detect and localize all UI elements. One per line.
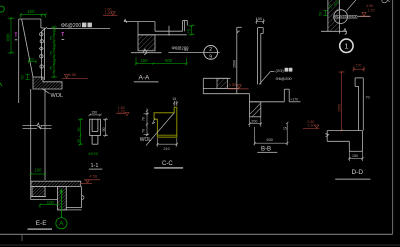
svg-text:70: 70 (141, 117, 145, 121)
leader line to rebar label (47, 28, 110, 30)
green bracket dim 50 (25, 74, 29, 79)
green small dim 50 (29, 60, 37, 64)
hatched L bracket (33, 77, 62, 89)
svg-text:75: 75 (53, 59, 57, 63)
right white dim (103, 118, 108, 137)
svg-text:600: 600 (6, 33, 11, 41)
green glyph left edge (0, 6, 4, 12)
left green dim (78, 118, 83, 145)
svg-text:E-E: E-E (36, 220, 48, 227)
svg-text:4.50: 4.50 (89, 174, 98, 179)
svg-text:4.50: 4.50 (229, 82, 238, 87)
A-A hatched footing (138, 35, 155, 51)
channel top dim 150 (255, 19, 264, 24)
svg-text:1500: 1500 (337, 104, 341, 112)
svg-text:75: 75 (53, 29, 57, 33)
tall vertical line (236, 27, 238, 93)
svg-text:150: 150 (91, 110, 97, 114)
svg-text:100: 100 (47, 200, 55, 205)
border tick (21, 234, 23, 241)
ledge hatch box (217, 78, 228, 88)
ground line with break (321, 29, 347, 35)
svg-text:Φ6@200: Φ6@200 (276, 76, 293, 81)
svg-text:D-D: D-D (352, 169, 364, 176)
wall outline top (19, 19, 47, 103)
svg-text:500: 500 (165, 58, 173, 63)
svg-text:75: 75 (49, 66, 53, 70)
svg-text:50: 50 (20, 75, 24, 79)
green right dim chain 75s (51, 26, 57, 78)
left hatched block (32, 186, 45, 196)
svg-text:35: 35 (77, 139, 81, 143)
white arrow tick (152, 118, 155, 124)
corner arc top-right (382, 0, 388, 3)
break symbol (23, 123, 52, 129)
svg-text:150: 150 (141, 58, 149, 63)
svg-text:Φ6@200: Φ6@200 (61, 23, 81, 29)
svg-text:15: 15 (283, 127, 287, 131)
svg-text:1-1: 1-1 (91, 163, 99, 169)
center hatched column (58, 186, 67, 210)
svg-text:C-C: C-C (162, 161, 173, 167)
leader to labels (259, 72, 274, 85)
svg-text:4.50: 4.50 (366, 4, 373, 8)
beam dim 200 (248, 117, 262, 127)
green dim 100 E-E (39, 203, 59, 208)
svg-text:B-B: B-B (261, 146, 271, 152)
svg-text:4Φ25: 4Φ25 (88, 151, 99, 156)
green dim 50 left of wall (323, 10, 327, 15)
svg-text:90: 90 (102, 128, 106, 132)
svg-text:1500: 1500 (233, 60, 237, 68)
detail circle on wall (334, 10, 348, 24)
hatched top slab strip (31, 181, 81, 186)
beam hatch box (250, 102, 261, 117)
svg-text:75: 75 (49, 51, 53, 55)
ground line with break (131, 49, 162, 55)
D-D profile (325, 131, 362, 152)
svg-text:210: 210 (163, 147, 169, 151)
top dim 15 (173, 101, 178, 106)
base line of center column (58, 209, 82, 211)
svg-text:2: 2 (209, 47, 212, 53)
ledge top (203, 78, 238, 93)
svg-text:15: 15 (172, 97, 176, 101)
green dim 100 column (30, 173, 47, 175)
sheet border vertical line (392, 0, 394, 234)
svg-text:150: 150 (256, 17, 262, 21)
green bottom dim A-A (135, 58, 188, 66)
svg-text:170: 170 (355, 63, 361, 67)
svg-text:1.20: 1.20 (307, 124, 314, 128)
svg-text:75: 75 (49, 36, 53, 40)
diagonal leader (146, 113, 174, 146)
green tick top (334, 1, 339, 6)
wall lines (327, 0, 329, 31)
top hook (237, 26, 242, 28)
svg-text:50: 50 (329, 4, 333, 8)
svg-text:70: 70 (141, 129, 145, 133)
svg-text:64: 64 (184, 48, 188, 52)
red vertical dim 1500 (339, 71, 345, 132)
svg-text:75: 75 (53, 44, 57, 48)
svg-text:150: 150 (27, 9, 35, 14)
svg-text:50: 50 (30, 58, 34, 62)
svg-text:70: 70 (366, 95, 370, 99)
small arrow on line (237, 30, 240, 33)
svg-text:50: 50 (319, 12, 323, 16)
svg-text:WOL: WOL (51, 93, 64, 99)
green tick far left (0, 83, 2, 86)
svg-text:1: 1 (344, 42, 348, 51)
svg-text:A: A (59, 221, 64, 228)
green left vertical dim 600 (8, 17, 15, 54)
wall hatch (328, 0, 340, 31)
white line to level (358, 16, 371, 18)
green top dim line 150 (20, 13, 47, 17)
red dim 170 (353, 67, 366, 72)
bracket outer (90, 119, 101, 144)
yellow flashing profile (154, 107, 177, 137)
svg-text:9: 9 (209, 55, 212, 61)
magenta mark left (15, 33, 18, 37)
svg-text:75: 75 (186, 28, 191, 33)
rebar circles (39, 33, 43, 69)
top dim 150 (89, 114, 102, 116)
bottom dim 210 (156, 138, 178, 147)
svg-text:630: 630 (267, 138, 273, 142)
C-C left dim chain (144, 109, 150, 137)
faint bottom line (0, 244, 400, 246)
big detail circle 1 (340, 39, 353, 52)
small bracket mark right (82, 196, 84, 200)
channel shape (355, 78, 363, 130)
column left line (30, 89, 32, 200)
svg-text:1.20: 1.20 (368, 9, 375, 13)
svg-text:100: 100 (35, 168, 43, 173)
svg-text:200: 200 (251, 119, 257, 123)
right wall line (81, 186, 83, 207)
green leader arrow and circle A (56, 192, 67, 229)
D-D dim 150 (348, 151, 364, 161)
svg-text:(2/3): (2/3) (276, 68, 285, 73)
svg-text:A-A: A-A (139, 74, 151, 81)
green right dim A-A (189, 25, 195, 36)
diagonal leader from circle (347, 0, 356, 11)
magenta mark right (61, 32, 64, 36)
A-A parapet profile (124, 19, 187, 35)
svg-text:4.50: 4.50 (69, 72, 78, 77)
left block base lines (31, 197, 58, 200)
WOL label with leader (42, 89, 50, 94)
lower dim 630 (254, 122, 289, 146)
svg-text:WOL: WOL (140, 137, 152, 143)
svg-text:≈170: ≈170 (291, 97, 299, 101)
bolt text band (334, 14, 358, 16)
thin channel (258, 28, 264, 85)
sheet border horizontal line (0, 233, 393, 235)
B-B slab profile (203, 89, 300, 102)
svg-text:M10x100@500: M10x100@500 (334, 15, 358, 19)
svg-text:90: 90 (77, 128, 81, 132)
right step line (66, 207, 81, 209)
svg-text:150: 150 (352, 154, 358, 158)
column right line (44, 89, 46, 180)
